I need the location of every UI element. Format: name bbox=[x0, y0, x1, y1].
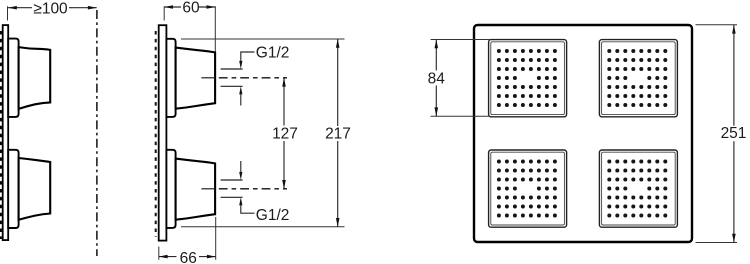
upper inlet port outline lines bbox=[221, 68, 243, 70]
dimension >=100: right arrow bbox=[88, 6, 97, 10]
dimension 60: arrows bbox=[164, 5, 173, 9]
upper spray body (middle view) bbox=[176, 48, 216, 109]
dimension 66: dimension line bbox=[159, 256, 177, 258]
dimension 251: arrows bbox=[732, 25, 736, 34]
dimension >=100: left arrow bbox=[8, 6, 17, 10]
wall plate (left view) bbox=[3, 25, 9, 240]
dimension 84: extension lines bbox=[431, 39, 490, 41]
svg-text:127: 127 bbox=[272, 125, 298, 142]
lower mounting flange (middle view) bbox=[166, 150, 175, 228]
finished wall reference centerline (dash-dot vertical) bbox=[96, 10, 98, 256]
dimension 66: extension lines bbox=[158, 247, 160, 260]
dimension 66: arrows bbox=[159, 255, 168, 259]
lower inlet port outline lines bbox=[221, 179, 243, 181]
svg-text:G1/2: G1/2 bbox=[256, 207, 290, 224]
upper port centerline bbox=[201, 77, 215, 79]
lower port centerline bbox=[201, 188, 215, 190]
lower spray body (left view) bbox=[19, 158, 51, 220]
upper mounting flange (middle view) bbox=[166, 39, 175, 117]
upper mounting flange (left view) bbox=[8, 39, 18, 117]
dimension 84: arrows bbox=[435, 40, 439, 49]
wall plate (middle view) bbox=[159, 25, 167, 240]
spray panel top-right bbox=[599, 40, 677, 117]
dimension 217: dimension line bbox=[337, 39, 339, 126]
spray nozzles top-left bbox=[497, 49, 557, 107]
dimension 217: extension lines bbox=[181, 38, 345, 40]
lower mounting flange (left view) bbox=[8, 150, 18, 228]
svg-text:66: 66 bbox=[180, 250, 197, 264]
spray nozzles top-right bbox=[607, 49, 667, 107]
dimension >=100: extension line at plate bbox=[7, 6, 9, 20]
dimension >=100: dimension line bbox=[8, 7, 32, 9]
dimension 60: dimension line bbox=[164, 6, 181, 8]
spray panel bottom-right bbox=[599, 150, 677, 227]
svg-text:251: 251 bbox=[721, 125, 747, 142]
dimension 217: arrows bbox=[336, 39, 340, 48]
dimension 127: arrows bbox=[282, 78, 286, 87]
svg-text:G1/2: G1/2 bbox=[256, 45, 290, 62]
upper spray body (left view) bbox=[19, 47, 51, 109]
lower spray body (middle view) bbox=[176, 159, 216, 220]
dimension 84: dimension line bbox=[435, 40, 437, 71]
svg-text:217: 217 bbox=[325, 125, 351, 142]
spray panel bottom-left bbox=[489, 150, 567, 227]
svg-text:84: 84 bbox=[428, 70, 446, 87]
wall hatch dashes (left view) bbox=[0, 31, 2, 239]
G1/2 lower leader and arrows bbox=[239, 161, 254, 213]
spray panel top-left bbox=[489, 40, 567, 117]
face plate square bbox=[474, 25, 692, 242]
dimension 60: extension lines bbox=[163, 6, 165, 20]
spray nozzles bottom-left bbox=[497, 160, 557, 218]
dimension 251: extension lines bbox=[696, 24, 738, 26]
spray nozzles bottom-right bbox=[607, 160, 667, 218]
dimension 127: dimension line bbox=[283, 78, 285, 126]
dimension 251: dimension line bbox=[733, 25, 735, 126]
svg-text:60: 60 bbox=[182, 0, 200, 17]
G1/2 upper leader and arrows bbox=[239, 52, 254, 106]
wall hatch dashes (middle view) bbox=[155, 31, 157, 237]
svg-text:≥100: ≥100 bbox=[33, 0, 68, 17]
